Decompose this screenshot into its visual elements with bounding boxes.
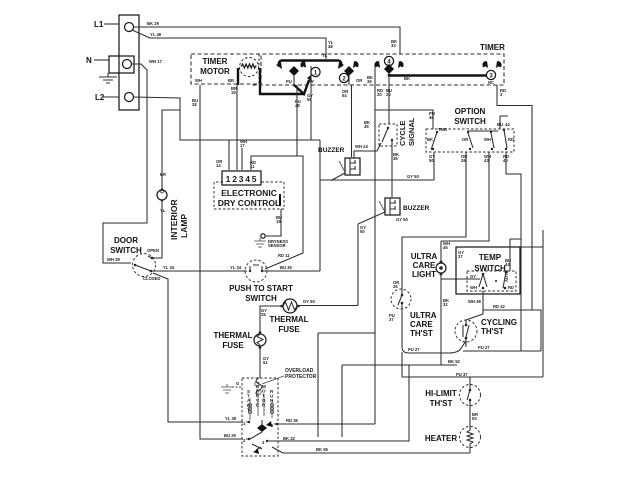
buzzer B2 (358, 198, 430, 224)
svg-text:26: 26 (393, 284, 398, 289)
svg-text:WH: WH (484, 137, 491, 142)
svg-text:FUSE: FUSE (278, 325, 300, 334)
svg-text:BK: BK (404, 76, 410, 81)
wire cycle signal to buzzer2 (391, 146, 393, 197)
wire riser x342 (341, 365, 343, 437)
electronic dry control terminals (222, 171, 261, 185)
heater (425, 427, 481, 448)
svg-text:BR: BR (228, 78, 234, 83)
wire GY50 buzzer2 to thermal fuse (357, 224, 359, 306)
svg-text:L1: L1 (94, 20, 104, 29)
timer contact 3 (482, 61, 502, 85)
wire WH43 option to ultra care light (441, 152, 489, 241)
svg-text:TEMP: TEMP (479, 253, 502, 262)
svg-text:26: 26 (461, 158, 466, 163)
svg-text:37: 37 (458, 254, 463, 259)
svg-text:BUZZER: BUZZER (403, 205, 430, 212)
svg-text:SWITCH: SWITCH (245, 294, 277, 303)
wire WH17 N to door switch (103, 64, 147, 263)
buzzer B1 (318, 147, 360, 181)
svg-text:35: 35 (364, 124, 369, 129)
svg-text:GY 50: GY 50 (396, 217, 408, 222)
wire OR26 option to ultra care thst (402, 152, 466, 289)
svg-text:40: 40 (503, 158, 508, 163)
svg-text:G: G (236, 381, 239, 386)
svg-text:MOTOR: MOTOR (200, 67, 230, 76)
wire lamp branch from BU28 (162, 110, 180, 190)
cycling thermostat (455, 318, 517, 342)
wire BU28 L2 to lamp and EDC (133, 97, 320, 140)
svg-text:N: N (86, 56, 92, 65)
svg-text:5: 5 (271, 423, 274, 428)
wire cycling thst bottom (465, 341, 467, 347)
option switch contact 2 (462, 131, 498, 150)
svg-text:SIGNAL: SIGNAL (407, 117, 416, 146)
timer motor coil M (238, 58, 304, 95)
timer motor box (191, 54, 261, 84)
svg-text:53: 53 (472, 416, 477, 421)
svg-text:GY 50: GY 50 (303, 299, 315, 304)
svg-text:PU: PU (286, 79, 292, 84)
svg-text:BK 29: BK 29 (147, 21, 160, 26)
svg-text:35: 35 (367, 79, 372, 84)
svg-text:LIGHT: LIGHT (412, 270, 436, 279)
svg-text:BU 30: BU 30 (280, 265, 293, 270)
wire OR54 contact2 to buzzer1 (349, 74, 352, 157)
svg-text:ULTRA: ULTRA (410, 311, 437, 320)
wire BK29 L1 to timer contact 4 (133, 27, 400, 54)
wire GY50 contact1 throw down (310, 66, 312, 140)
wire heater bottom to bus (469, 447, 471, 453)
svg-text:CARE: CARE (413, 261, 436, 270)
dryness sensor (254, 234, 288, 248)
svg-text:BUZZER: BUZZER (318, 147, 345, 154)
ultra care light (411, 252, 446, 279)
wire PU46 feed to option switch (375, 110, 433, 129)
svg-text:WH: WH (195, 78, 202, 83)
svg-text:INTERIOR: INTERIOR (169, 199, 179, 240)
svg-text:PU 27: PU 27 (408, 347, 420, 352)
cycle signal box (379, 117, 416, 146)
svg-text:AUTO: AUTO (504, 269, 509, 282)
svg-text:WH 38: WH 38 (468, 299, 481, 304)
overload protector (255, 378, 262, 396)
wire L2 stub (102, 96, 119, 98)
temp switch contact B (495, 269, 514, 290)
thermal fuse TF2 (213, 331, 266, 350)
wire GY50 bus buzzer1 to option switch (320, 179, 434, 181)
svg-text:BR: BR (160, 172, 166, 177)
wire BU30 push-to-start right (262, 270, 320, 272)
wire L1 stub (104, 23, 119, 25)
svg-text:48: 48 (328, 44, 333, 49)
door switch (110, 236, 160, 281)
wire riser GY50 bus to push-to-start (319, 140, 321, 271)
motor switch contacts (243, 420, 278, 454)
svg-text:CLOSED: CLOSED (143, 276, 160, 281)
svg-text:12345: 12345 (226, 174, 259, 184)
wire PU27 cycling to right riser (463, 350, 541, 352)
svg-text:RD: RD (508, 285, 514, 290)
svg-text:GY: GY (470, 274, 476, 279)
svg-text:51: 51 (263, 360, 268, 365)
option switch contact 3 (484, 131, 494, 150)
svg-text:RD 42: RD 42 (493, 304, 506, 309)
wire YL34 door switch to push-to-start (151, 270, 247, 272)
svg-text:TH'ST: TH'ST (410, 329, 433, 338)
svg-text:TIMER: TIMER (480, 43, 505, 52)
electronic dry control box (214, 182, 284, 209)
timer contact 4 (374, 56, 487, 75)
svg-text:DOOR: DOOR (114, 236, 138, 245)
svg-text:CYCLING: CYCLING (481, 318, 517, 327)
wire riser x318 to RD36 area (318, 333, 375, 437)
svg-text:OPTION: OPTION (455, 107, 486, 116)
wire RD36 motor to long vertical (275, 423, 375, 425)
svg-text:TMD: TMD (438, 127, 447, 132)
svg-text:BK 52: BK 52 (448, 359, 461, 364)
svg-text:14: 14 (216, 163, 221, 168)
wire OR14 to EDC terminal 1 (228, 140, 230, 170)
wire WH17 to EDC terminal 3 (241, 148, 243, 170)
wire BK32 ultra care light down (440, 274, 442, 365)
svg-text:WH 39: WH 39 (107, 257, 120, 262)
ultra care thermostat (391, 289, 437, 338)
thermal fuse TF1 (269, 299, 308, 334)
svg-text:TH'ST: TH'ST (481, 327, 504, 336)
svg-text:SWITCH: SWITCH (454, 117, 486, 126)
temp switch contact A (470, 273, 487, 290)
wire RD40 option drop right (506, 152, 521, 351)
motor windings (248, 395, 273, 420)
option switch contact 1 (427, 131, 438, 150)
svg-text:BU 29: BU 29 (224, 433, 237, 438)
svg-text:19: 19 (231, 90, 236, 95)
svg-text:HI-LIMIT: HI-LIMIT (425, 389, 457, 398)
svg-text:36: 36 (393, 156, 398, 161)
wire BK35 long vertical to motor RD36 (374, 66, 376, 424)
wire YL35 door switch to motor (153, 273, 243, 422)
svg-text:YL 35: YL 35 (225, 416, 237, 421)
svg-text:11: 11 (250, 164, 255, 169)
svg-text:20: 20 (377, 92, 382, 97)
svg-text:CARE: CARE (410, 320, 433, 329)
wire GY51 thermal fuse to overload (259, 347, 261, 378)
wire BU20 contact4 pole to cycle signal (388, 75, 390, 124)
wire BU19 EDC to dryness sensor (266, 209, 281, 236)
motor box (242, 378, 278, 456)
svg-text:19: 19 (276, 219, 281, 224)
svg-text:50: 50 (429, 158, 434, 163)
svg-text:ULTRA: ULTRA (411, 252, 438, 261)
svg-text:YL 34: YL 34 (163, 265, 175, 270)
wire BK52 horizontal (342, 364, 457, 366)
wire BR53 hi-limit to heater (469, 404, 471, 427)
terminal block TB1 (109, 15, 139, 110)
wire lamp to door switch OPEN (152, 200, 162, 258)
wire BK55 bottom bus (283, 452, 470, 454)
svg-text:OR: OR (462, 137, 468, 142)
svg-text:THERMAL: THERMAL (213, 331, 252, 340)
svg-text:48: 48 (295, 103, 300, 108)
svg-text:WH 17: WH 17 (149, 59, 162, 64)
motor DRIVE MOTOR label (256, 384, 266, 407)
svg-text:TIMER: TIMER (203, 57, 228, 66)
wire PU27 ultra care thst to cycling thst (402, 309, 466, 353)
svg-text:45: 45 (443, 245, 448, 250)
wire BK32 motor run to riser (272, 365, 409, 441)
svg-text:CYCLE: CYCLE (398, 121, 407, 146)
svg-text:BK 32: BK 32 (283, 436, 296, 441)
svg-text:BU: BU (497, 122, 503, 127)
svg-text:YL 34: YL 34 (230, 265, 242, 270)
overload protector callout (262, 368, 317, 384)
svg-text:3: 3 (262, 440, 265, 445)
wire temp switch pole feed (441, 278, 480, 280)
svg-text:25: 25 (261, 312, 266, 317)
svg-text:54: 54 (342, 93, 347, 98)
svg-text:RD 36: RD 36 (286, 418, 299, 423)
svg-text:SENSOR: SENSOR (268, 243, 286, 248)
svg-text:37: 37 (389, 317, 394, 322)
svg-text:SWITCH: SWITCH (110, 246, 142, 255)
svg-text:YL: YL (160, 208, 166, 213)
timer contact 2 (339, 61, 359, 83)
svg-text:YL 49: YL 49 (150, 32, 162, 37)
wire GY50 option drop (433, 152, 435, 180)
wire N stub (94, 59, 109, 61)
svg-text:50: 50 (360, 229, 365, 234)
svg-text:BK: BK (427, 137, 433, 142)
svg-text:44: 44 (505, 262, 510, 267)
wire WH45 ultra care light top (440, 241, 442, 262)
ground at N (99, 73, 117, 83)
svg-text:OPEN: OPEN (147, 248, 159, 253)
svg-text:DRY CONTROL: DRY CONTROL (218, 198, 281, 208)
svg-text:RD: RD (508, 137, 514, 142)
wire BR19 timer motor lead down to EDC terminal 2 (236, 85, 238, 170)
svg-text:PUSH TO START: PUSH TO START (229, 284, 293, 293)
svg-text:HEATER: HEATER (425, 434, 458, 443)
svg-text:ELECTRONIC: ELECTRONIC (221, 188, 277, 198)
svg-text:OR: OR (356, 78, 362, 83)
svg-text:17: 17 (240, 143, 245, 148)
svg-text:PU 37: PU 37 (456, 372, 468, 377)
wire PU48 contact1 pole down (296, 85, 298, 156)
wire RD42 (483, 310, 541, 351)
svg-text:PU 27: PU 27 (478, 345, 490, 350)
wire WH timer motor lead down to motor BU29 (200, 85, 243, 439)
wire PU37 ultra care to hi-limit (402, 352, 543, 377)
svg-text:1: 1 (243, 421, 246, 426)
svg-text:33: 33 (391, 43, 396, 48)
svg-text:32: 32 (443, 302, 448, 307)
interior lamp (157, 172, 167, 213)
wire BU44 riser into temp switch (509, 239, 511, 271)
motor ground (221, 381, 242, 393)
svg-text:28: 28 (192, 102, 197, 107)
wire WH24 cycle signal to buzzer1 (354, 143, 381, 158)
svg-text:WH: WH (470, 285, 477, 290)
wire GY25 between thermal fuses (260, 306, 283, 334)
interior lamp label (169, 199, 189, 240)
svg-text:50: 50 (307, 97, 312, 102)
wire PU37 drop to hi-limit (469, 377, 471, 385)
temp switch box (456, 247, 520, 294)
svg-text:GY 50: GY 50 (407, 174, 419, 179)
svg-text:SWITCH: SWITCH (474, 264, 506, 273)
wire WH38 temp switch to cycling thst (466, 291, 483, 320)
svg-text:PROTECTOR: PROTECTOR (285, 374, 317, 380)
svg-text:LAMP: LAMP (179, 214, 189, 238)
wire temp switch top right stub (520, 230, 543, 377)
push to start switch (229, 260, 293, 303)
svg-text:BK 55: BK 55 (316, 447, 329, 452)
hi-limit thermostat (425, 385, 480, 409)
timer feed bar YL (276, 61, 344, 70)
svg-text:WH 24: WH 24 (355, 144, 368, 149)
svg-text:44: 44 (505, 122, 510, 127)
svg-text:TH'ST: TH'ST (430, 399, 453, 408)
timer box dashed (191, 43, 505, 85)
wire motor bottom pin (272, 447, 283, 453)
wire YL49 L1 to timer bar (132, 30, 326, 59)
svg-text:2: 2 (243, 438, 246, 443)
svg-text:NC: NC (488, 80, 494, 85)
option switch box (426, 107, 514, 152)
svg-text:43: 43 (484, 158, 489, 163)
option switch contact 4 (503, 129, 514, 150)
timer contact 1 (289, 61, 320, 94)
wire thermal fuse to GY50 riser (297, 305, 358, 307)
svg-text:RD 11: RD 11 (278, 253, 290, 258)
svg-text:FUSE: FUSE (222, 341, 244, 350)
wire RD11 EDC terminal 5 to push-to-start (251, 156, 303, 269)
svg-text:THERMAL: THERMAL (269, 315, 308, 324)
svg-text:46: 46 (429, 115, 434, 120)
wire RD3 contact3 down right side (497, 85, 532, 310)
